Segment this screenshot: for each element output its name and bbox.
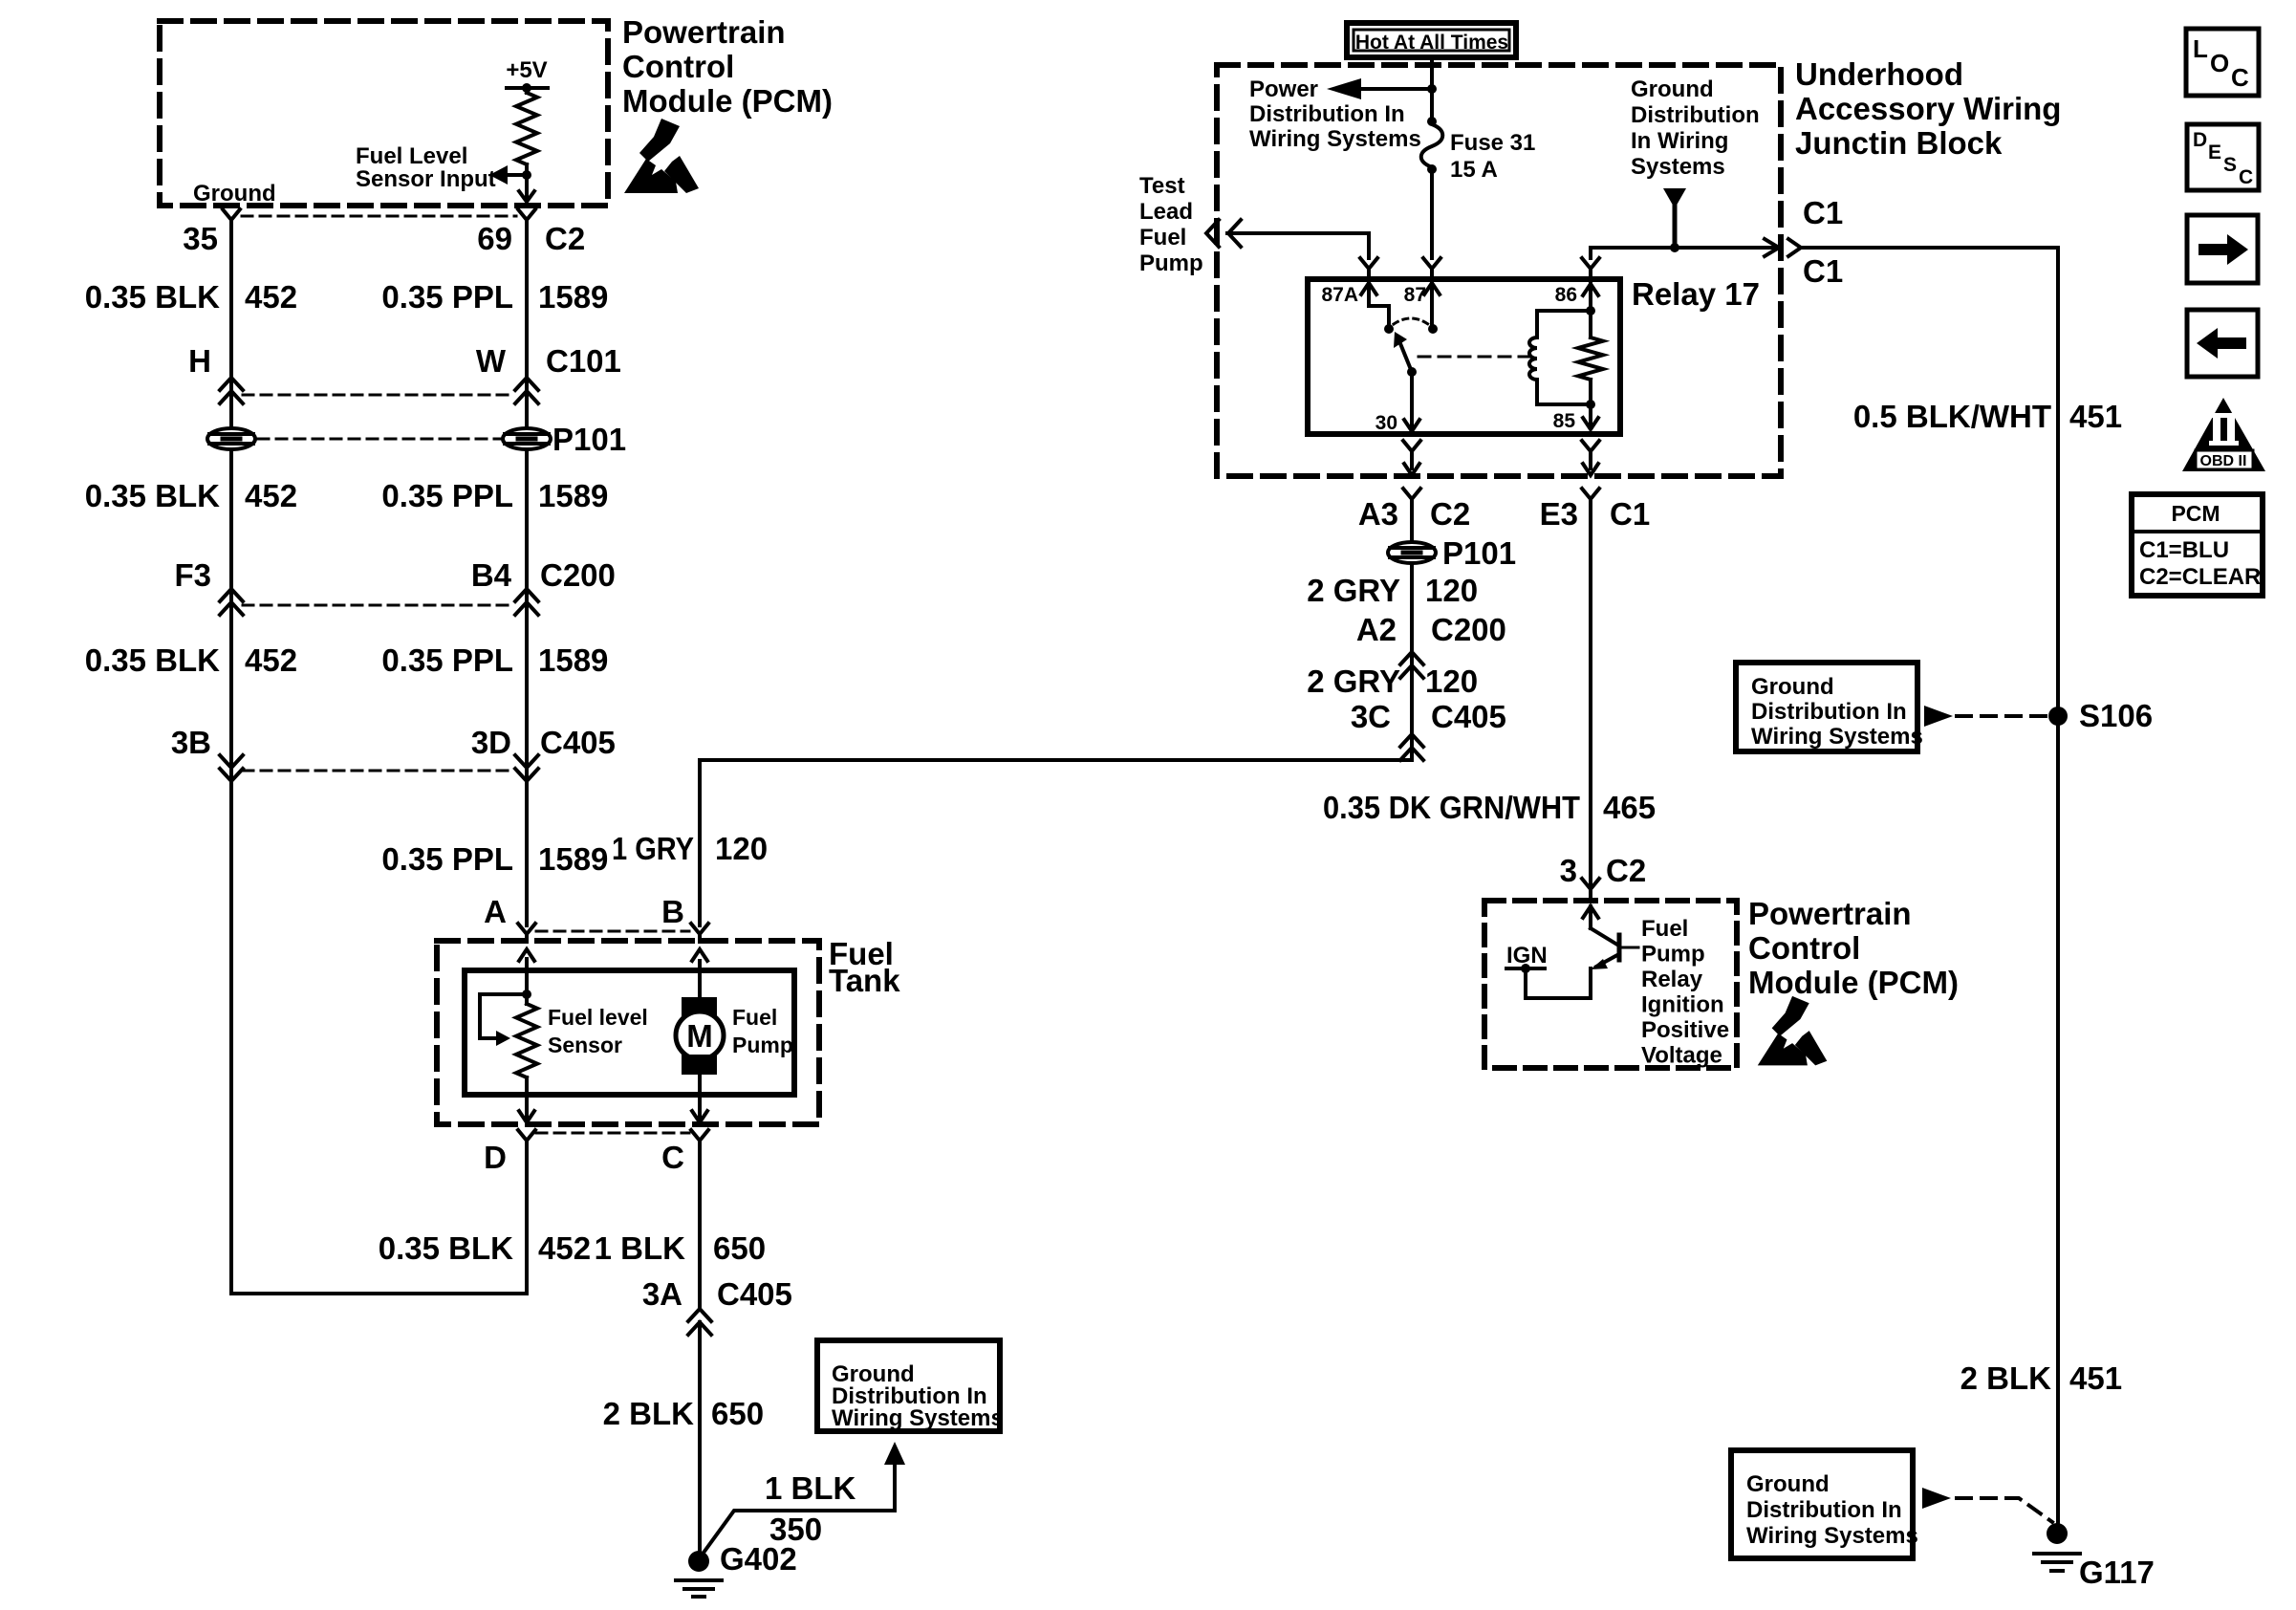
svg-text:0.35 PPL: 0.35 PPL — [381, 642, 513, 678]
connector C405 chevrons 3A — [688, 1309, 711, 1321]
IGN lead — [1506, 967, 1545, 970]
svg-text:C1: C1 — [1803, 195, 1843, 230]
connector C101 dashed link — [243, 394, 515, 397]
relay pin 30 internal arrow — [1410, 372, 1414, 428]
svg-text:A3: A3 — [1358, 496, 1398, 532]
svg-text:Distribution In: Distribution In — [1249, 101, 1405, 127]
svg-text:Wiring Systems: Wiring Systems — [1746, 1523, 1918, 1549]
relay pin 85 internal arrow — [1589, 404, 1592, 426]
grommet P101 middle — [1388, 542, 1436, 563]
junction block exit pin 30 — [1403, 441, 1420, 451]
fuel tank pin B fork — [691, 924, 708, 934]
transistor base bar — [1617, 935, 1622, 960]
PCM dashed box (lower right) — [1484, 901, 1737, 1068]
transistor base lead — [1619, 946, 1638, 949]
svg-text:15 A: 15 A — [1450, 157, 1498, 183]
svg-text:C1: C1 — [1610, 496, 1650, 532]
svg-text:A2: A2 — [1356, 612, 1397, 647]
wire 120 to fuel pump vertical — [698, 760, 702, 925]
relay pin 87 internal — [1424, 283, 1440, 294]
svg-text:In Wiring: In Wiring — [1631, 128, 1728, 154]
svg-text:Fuel Level: Fuel Level — [356, 143, 467, 169]
svg-text:451: 451 — [2069, 399, 2122, 434]
svg-text:0.35 DK GRN/WHT: 0.35 DK GRN/WHT — [1323, 790, 1580, 825]
tank exit chevron C — [698, 1095, 702, 1122]
svg-text:Test: Test — [1139, 173, 1185, 199]
svg-text:1 BLK: 1 BLK — [765, 1470, 856, 1506]
svg-text:C200: C200 — [540, 557, 616, 593]
svg-text:C2: C2 — [545, 221, 585, 256]
svg-text:2 BLK: 2 BLK — [1960, 1360, 2052, 1396]
svg-text:C2: C2 — [1606, 853, 1646, 888]
svg-text:Pump: Pump — [1139, 250, 1203, 276]
svg-text:1589: 1589 — [538, 841, 608, 877]
svg-text:C2: C2 — [1430, 496, 1470, 532]
svg-text:87A: 87A — [1321, 284, 1358, 306]
svg-text:Junctin Block: Junctin Block — [1795, 125, 2003, 161]
svg-text:Fuel: Fuel — [1641, 916, 1688, 942]
grommet P101 left — [207, 428, 255, 449]
svg-text:0.35 PPL: 0.35 PPL — [381, 478, 513, 513]
svg-text:Accessory Wiring: Accessory Wiring — [1795, 91, 2061, 126]
relay switch throw arc — [1394, 318, 1428, 324]
svg-text:C2=CLEAR: C2=CLEAR — [2139, 564, 2261, 590]
relay coil suppression resistor — [1589, 311, 1592, 337]
svg-text:O: O — [2210, 49, 2229, 77]
svg-text:P101: P101 — [552, 422, 626, 457]
svg-text:PCM: PCM — [2171, 501, 2220, 526]
svg-text:0.5 BLK/WHT: 0.5 BLK/WHT — [1853, 399, 2051, 434]
svg-text:1589: 1589 — [538, 478, 608, 513]
splice S106 — [2048, 707, 2068, 726]
svg-text:C200: C200 — [1431, 612, 1506, 647]
svg-text:0.35 PPL: 0.35 PPL — [381, 279, 513, 315]
sensor ground return wire — [525, 1148, 529, 1294]
fuel level sensor resistor — [516, 1004, 537, 1077]
svg-text:E3: E3 — [1540, 496, 1578, 532]
svg-text:2 GRY: 2 GRY — [1307, 573, 1400, 608]
connector C200 dashed link — [243, 604, 513, 607]
svg-text:OBD II: OBD II — [2200, 453, 2247, 469]
svg-text:F3: F3 — [174, 557, 211, 593]
svg-text:0.35 BLK: 0.35 BLK — [85, 279, 220, 315]
connector C405 chevrons right — [515, 755, 538, 768]
tank bottom pin D fork — [518, 1130, 535, 1141]
svg-text:Ground: Ground — [1631, 76, 1714, 102]
node at resistor bottom — [522, 170, 531, 180]
pin 3 fork — [1582, 879, 1599, 889]
svg-text:3D: 3D — [471, 725, 511, 760]
relay pin 86 fork — [1582, 258, 1599, 269]
fuel level sensor node — [525, 959, 529, 994]
svg-text:451: 451 — [2069, 1360, 2122, 1396]
fuel pump wire inside tank — [698, 961, 702, 997]
svg-text:Underhood: Underhood — [1795, 56, 1963, 92]
svg-text:Module (PCM): Module (PCM) — [622, 83, 833, 119]
ground distribution arrow (G402 branch) — [884, 1442, 905, 1465]
wire fuse to relay pin 87 — [1430, 171, 1434, 258]
connector C405 chevrons (middle) — [1400, 734, 1423, 747]
svg-text:Power: Power — [1249, 76, 1318, 102]
svg-text:IGN: IGN — [1506, 943, 1548, 968]
svg-text:Powertrain: Powertrain — [622, 14, 786, 50]
IGN node — [1521, 964, 1530, 973]
svg-text:W: W — [476, 343, 507, 379]
svg-text:0.35 BLK: 0.35 BLK — [85, 642, 220, 678]
connector C101 chevrons left — [220, 378, 243, 390]
ESD sensitive device icon (PCM lower) — [1758, 996, 1828, 1066]
svg-text:C405: C405 — [1431, 699, 1506, 734]
svg-text:Relay 17: Relay 17 — [1632, 276, 1760, 312]
svg-text:S106: S106 — [2079, 698, 2153, 733]
svg-text:C: C — [2239, 166, 2253, 188]
forward arrow box — [2187, 215, 2258, 283]
svg-text:3B: 3B — [171, 725, 211, 760]
svg-text:Fuse 31: Fuse 31 — [1450, 130, 1535, 156]
tank entry chevron B — [692, 949, 707, 961]
svg-text:C101: C101 — [546, 343, 621, 379]
connector C101 chevrons right — [515, 378, 538, 390]
svg-text:Relay: Relay — [1641, 967, 1703, 992]
power distribution arrow — [1361, 87, 1432, 91]
svg-text:Wiring Systems: Wiring Systems — [1751, 724, 1923, 750]
svg-text:G117: G117 — [2079, 1555, 2155, 1590]
Hot At All Times box — [1347, 23, 1516, 57]
PCM pin 69 fork — [518, 209, 535, 220]
connector C405 chevrons left — [220, 755, 243, 768]
svg-text:Voltage: Voltage — [1641, 1043, 1722, 1069]
Ground Distribution box (bottom left) — [817, 1340, 1000, 1431]
PCM pin 35 fork — [223, 209, 240, 220]
svg-text:1 BLK: 1 BLK — [595, 1230, 686, 1266]
tank exit chevron D — [525, 1095, 529, 1122]
ground distribution dashed link (G117) — [1922, 1488, 1951, 1509]
svg-text:0.35 BLK: 0.35 BLK — [85, 478, 220, 513]
svg-text:Distribution In: Distribution In — [1746, 1497, 1902, 1523]
connector C405 dashed link — [243, 770, 513, 772]
svg-text:85: 85 — [1553, 410, 1576, 432]
svg-text:M: M — [686, 1018, 713, 1054]
connector C200 chevrons right — [515, 589, 538, 601]
connector C1 arrow and fork — [1765, 239, 1779, 256]
transistor emitter path to IGN — [1526, 968, 1591, 998]
transistor emitter — [1596, 955, 1617, 967]
svg-text:E: E — [2208, 141, 2221, 163]
connector C2 dashed link — [242, 215, 516, 218]
svg-text:0.35 PPL: 0.35 PPL — [381, 841, 513, 877]
OBD II symbol — [2182, 398, 2265, 471]
fuel tank connector dashed link — [536, 930, 689, 933]
grommet P101 right — [503, 428, 551, 449]
svg-text:120: 120 — [1425, 573, 1478, 608]
relay pin 86 internal — [1583, 284, 1598, 295]
wire 452 left vertical — [229, 220, 233, 1294]
wire E3 to PCM — [1589, 507, 1592, 884]
svg-text:452: 452 — [245, 642, 297, 678]
svg-text:Distribution: Distribution — [1631, 102, 1760, 128]
svg-text:86: 86 — [1555, 284, 1577, 306]
ground distribution dashed link (S106) — [1924, 706, 1953, 727]
svg-text:C405: C405 — [540, 725, 616, 760]
svg-text:Sensor Input: Sensor Input — [356, 166, 496, 192]
transistor collector — [1583, 906, 1598, 918]
hot feed node — [1427, 84, 1437, 94]
fuel pump motor circle M — [676, 1012, 724, 1059]
wire 1 BLK 350 to ground distribution — [704, 1467, 895, 1553]
relay switch blade — [1399, 341, 1412, 372]
PCM module dashed box (Powertrain Control Module) — [160, 21, 608, 206]
svg-text:3A: 3A — [642, 1276, 682, 1312]
svg-text:Lead: Lead — [1139, 199, 1193, 225]
svg-text:650: 650 — [711, 1396, 764, 1431]
wire from hot feed — [1430, 60, 1434, 118]
svg-text:P101: P101 — [1442, 535, 1516, 571]
svg-text:Wiring Systems: Wiring Systems — [1249, 126, 1421, 152]
svg-text:1 GRY: 1 GRY — [612, 831, 694, 866]
svg-text:B: B — [661, 894, 684, 929]
fuel pump motor upper brush — [682, 997, 717, 1018]
svg-text:C1: C1 — [1803, 253, 1843, 289]
test lead wire — [1227, 231, 1369, 235]
svg-text:Ground: Ground — [1751, 674, 1834, 700]
relay pin 87A fork — [1360, 258, 1377, 269]
svg-text:Hot At All Times: Hot At All Times — [1355, 32, 1508, 54]
fuse 31 symbol — [1427, 117, 1437, 126]
svg-text:Tank: Tank — [829, 963, 900, 998]
svg-text:Systems: Systems — [1631, 154, 1725, 180]
pin A3 fork — [1403, 489, 1420, 499]
svg-text:C: C — [2231, 63, 2249, 92]
ESD sensitive device icon (PCM) — [624, 119, 699, 193]
svg-text:69: 69 — [477, 221, 512, 256]
svg-text:Module (PCM): Module (PCM) — [1748, 965, 1959, 1000]
LOC reference box — [2186, 29, 2259, 96]
svg-text:S: S — [2223, 154, 2237, 176]
svg-text:Pump: Pump — [1641, 942, 1705, 968]
svg-text:+5V: +5V — [506, 57, 547, 83]
svg-text:Control: Control — [622, 49, 734, 84]
fuel level sensor wiper loop — [480, 994, 527, 1038]
svg-text:120: 120 — [715, 831, 768, 866]
wire A3 to P101 — [1410, 507, 1414, 540]
svg-text:Fuel: Fuel — [1139, 225, 1186, 250]
pin E3 fork — [1582, 489, 1599, 499]
svg-text:2 BLK: 2 BLK — [603, 1396, 695, 1431]
grommet P101 dashed link — [258, 438, 501, 441]
svg-text:Ground: Ground — [1746, 1471, 1830, 1497]
ground G117 symbol — [2047, 1523, 2068, 1544]
Fuel Level Sensor Input arrow — [505, 173, 527, 177]
fuel tank dashed box — [437, 941, 819, 1124]
svg-text:350: 350 — [769, 1512, 822, 1547]
svg-text:87: 87 — [1404, 284, 1426, 306]
svg-text:30: 30 — [1375, 412, 1397, 434]
wire 451 vertical — [2056, 248, 2060, 1525]
svg-text:120: 120 — [1425, 664, 1478, 699]
horizontal wire to C1 — [1591, 246, 1774, 250]
ground G402 symbol — [688, 1551, 709, 1572]
wire 1589 vertical — [525, 220, 529, 925]
junction block exit pin 85 — [1582, 441, 1599, 451]
tank entry chevron A — [519, 949, 534, 961]
fuel tank pin A fork — [518, 924, 535, 934]
connector C200 chevrons left — [220, 589, 243, 601]
svg-text:B4: B4 — [471, 557, 512, 593]
relay pin 87A internal — [1361, 283, 1376, 294]
svg-text:Fuel: Fuel — [732, 1005, 777, 1030]
svg-text:D: D — [484, 1140, 507, 1175]
svg-text:3: 3 — [1560, 853, 1577, 888]
relay mechanical link dashed — [1419, 356, 1529, 359]
svg-text:35: 35 — [183, 221, 218, 256]
svg-text:C405: C405 — [717, 1276, 792, 1312]
relay pin 87 fork — [1423, 258, 1440, 269]
svg-text:Ground: Ground — [193, 181, 276, 207]
Ground Distribution box (middle right) — [1736, 663, 1917, 751]
svg-text:0.35 BLK: 0.35 BLK — [379, 1230, 513, 1266]
svg-text:465: 465 — [1603, 790, 1656, 825]
wire from node to PCM pin 69 with down arrow — [525, 175, 529, 199]
svg-text:Fuel level: Fuel level — [548, 1005, 648, 1030]
svg-text:650: 650 — [713, 1230, 766, 1266]
svg-text:1589: 1589 — [538, 642, 608, 678]
svg-text:C: C — [661, 1140, 684, 1175]
horizontal wire to fuel pump feed — [700, 758, 1412, 762]
DESC reference box — [2187, 124, 2259, 190]
svg-text:452: 452 — [245, 478, 297, 513]
tank bottom connector dashed link — [536, 1132, 689, 1135]
+5V supply rail with node — [507, 86, 548, 90]
tank bottom pin C fork — [691, 1130, 708, 1141]
underhood junction block dashed box — [1217, 65, 1781, 476]
svg-text:Distribution In: Distribution In — [1751, 699, 1907, 725]
PCM connector legend box — [2132, 494, 2263, 596]
ground distribution arrow (junction) — [1663, 188, 1686, 208]
fuel pump ground wire lower — [698, 1322, 702, 1551]
svg-text:3C: 3C — [1351, 699, 1391, 734]
relay 17 box — [1308, 279, 1620, 434]
svg-text:Control: Control — [1748, 930, 1860, 966]
svg-text:C1=BLU: C1=BLU — [2139, 537, 2229, 563]
svg-text:H: H — [188, 343, 211, 379]
wire P101 to C405 elbow — [1410, 565, 1414, 760]
Ground Distribution box (bottom right) — [1731, 1450, 1913, 1558]
back arrow box — [2187, 310, 2258, 377]
svg-text:L: L — [2193, 34, 2208, 63]
svg-text:A: A — [484, 894, 507, 929]
connector C200 chevrons (middle) — [1400, 652, 1423, 664]
svg-text:2 GRY: 2 GRY — [1307, 664, 1400, 699]
svg-text:Positive: Positive — [1641, 1017, 1729, 1043]
node on C1 wire — [1670, 243, 1679, 252]
svg-text:Wiring Systems: Wiring Systems — [832, 1405, 1004, 1431]
svg-text:452: 452 — [245, 279, 297, 315]
svg-text:Powertrain: Powertrain — [1748, 896, 1912, 931]
svg-text:D: D — [2193, 129, 2207, 151]
svg-text:452: 452 — [538, 1230, 591, 1266]
svg-text:Sensor: Sensor — [548, 1033, 622, 1057]
svg-text:Ignition: Ignition — [1641, 992, 1724, 1018]
svg-text:Pump: Pump — [732, 1033, 793, 1057]
fuel pump ground wire upper — [698, 1148, 702, 1306]
test lead chevrons — [1206, 220, 1219, 247]
fuel tank inner solid box — [465, 970, 794, 1095]
svg-text:1589: 1589 — [538, 279, 608, 315]
relay coil — [1537, 311, 1591, 337]
resistor (fuel level sensor pull-up) — [516, 93, 537, 164]
fuel pump motor lower brush — [682, 1055, 717, 1075]
